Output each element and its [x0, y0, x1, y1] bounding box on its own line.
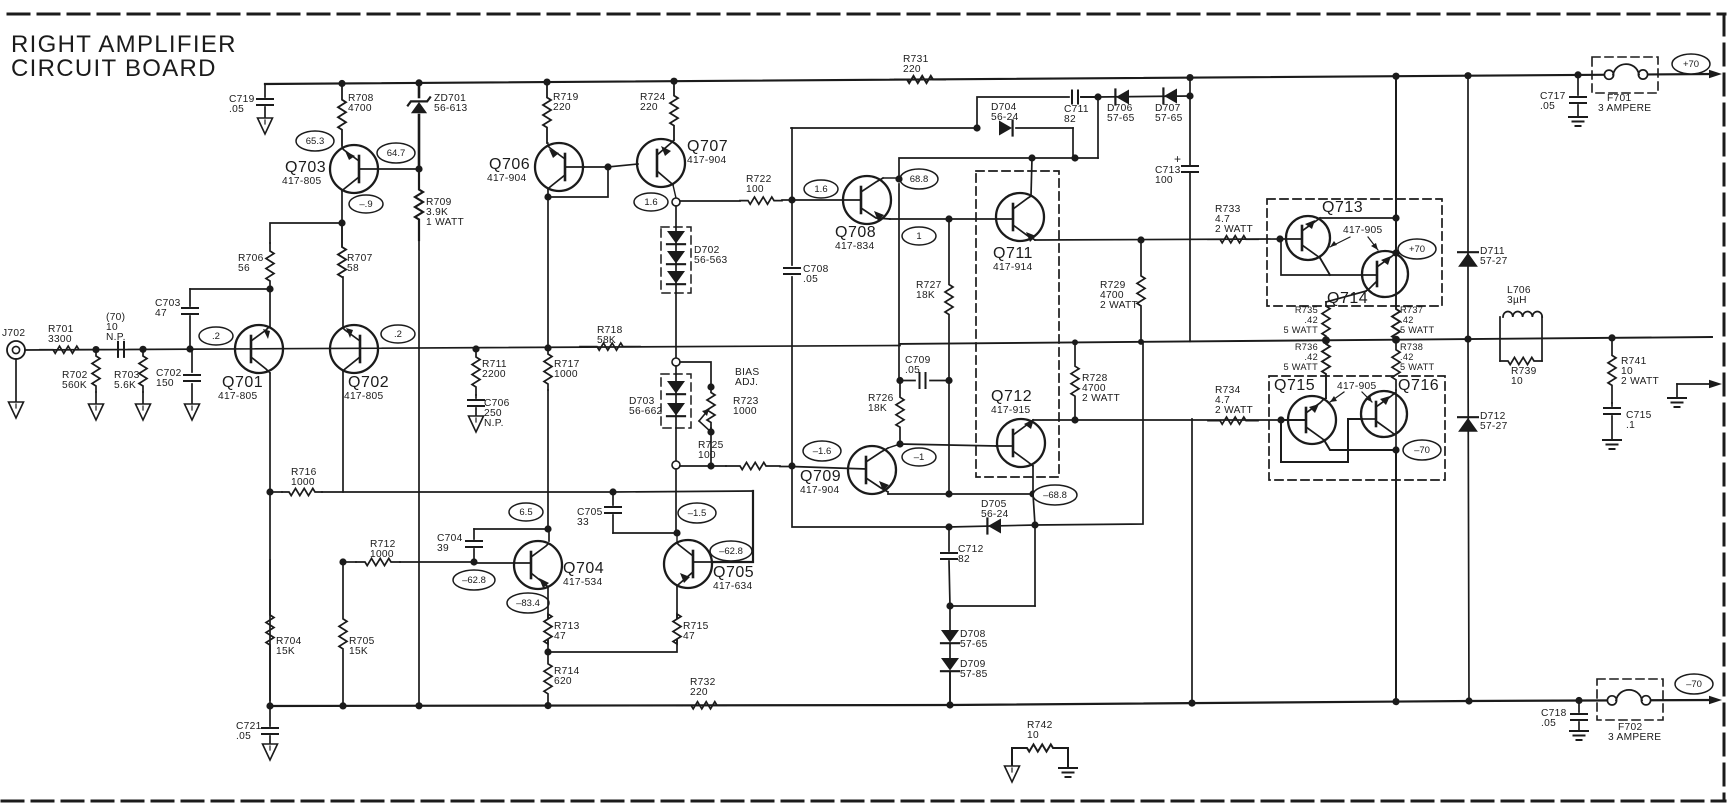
svg-text:57-65: 57-65 — [1107, 113, 1135, 124]
node 6.5 — [509, 503, 543, 521]
junction — [1094, 93, 1101, 100]
wire D705 line to output column — [1035, 342, 1143, 525]
svg-text:2 WATT: 2 WATT — [1215, 224, 1253, 235]
junction — [945, 215, 952, 222]
wire Q713 emitter to Q714 — [1281, 239, 1362, 275]
svg-text:R737: R737 — [1400, 305, 1423, 315]
transistor Q707 — [637, 138, 728, 187]
wire — [1191, 419, 1193, 703]
junction — [707, 462, 714, 469]
junction — [544, 648, 551, 655]
svg-text:–68.8: –68.8 — [1043, 490, 1067, 501]
transistor Q701 — [218, 325, 283, 402]
junction — [1277, 416, 1284, 423]
wire — [680, 362, 711, 387]
resistor R706 — [238, 243, 274, 289]
junction — [544, 193, 551, 200]
fuse F701 — [1592, 57, 1658, 114]
ground — [9, 402, 24, 418]
wire — [792, 467, 949, 528]
svg-text:Q705: Q705 — [713, 564, 754, 581]
svg-text:.2: .2 — [394, 329, 402, 340]
node -1.6 — [803, 441, 841, 461]
resistor R739 — [1500, 357, 1542, 387]
svg-text:417-805: 417-805 — [282, 176, 322, 187]
wire — [613, 491, 753, 492]
svg-text:4700: 4700 — [348, 103, 372, 114]
wire -70 collector column — [1395, 390, 1397, 702]
junction — [1575, 697, 1582, 704]
junction — [139, 346, 146, 353]
transistor Q708 — [792, 176, 891, 252]
capacitor C706 — [468, 395, 510, 429]
junction — [707, 428, 714, 435]
svg-text:65.3: 65.3 — [306, 136, 325, 147]
resistor R709 — [415, 169, 464, 348]
resistor R735 — [1284, 302, 1330, 340]
svg-text:–1.5: –1.5 — [688, 508, 707, 519]
svg-text:R738: R738 — [1400, 342, 1423, 352]
resistor R736 — [1284, 340, 1330, 398]
resistor R702 — [62, 350, 100, 404]
node -1 — [902, 448, 936, 466]
wire Q714 emitter — [1326, 291, 1366, 302]
wire — [948, 381, 950, 495]
diode D706 — [1107, 90, 1135, 125]
capacitor C713 — [1155, 96, 1198, 341]
resistor R718 — [580, 325, 640, 350]
resistor R737 — [1392, 253, 1435, 340]
wire line C — [1032, 97, 1098, 158]
chassis ground — [1570, 731, 1588, 740]
svg-text:10: 10 — [1027, 730, 1039, 741]
inductor L706 — [1500, 285, 1542, 361]
svg-text:417-905: 417-905 — [1343, 225, 1383, 236]
wire — [378, 168, 419, 170]
wire — [418, 348, 420, 706]
svg-text:CIRCUIT BOARD: CIRCUIT BOARD — [11, 55, 217, 82]
transistor Q702 — [330, 325, 389, 402]
wire — [268, 289, 270, 327]
resistor R716 — [270, 467, 613, 496]
svg-text:.1: .1 — [1626, 420, 1635, 431]
junction — [1071, 416, 1078, 423]
svg-text:417-534: 417-534 — [563, 577, 603, 588]
resistor R717 — [544, 348, 580, 390]
svg-text:417-904: 417-904 — [800, 485, 840, 496]
svg-text:Q715: Q715 — [1274, 377, 1315, 394]
junction — [945, 490, 952, 497]
block Q711/Q712 — [976, 171, 1059, 477]
svg-text:Q703: Q703 — [285, 159, 326, 176]
svg-text:Q711: Q711 — [993, 245, 1033, 262]
svg-text:–62.8: –62.8 — [719, 546, 743, 557]
svg-text:56-613: 56-613 — [434, 103, 468, 114]
transistor Q706 — [487, 143, 584, 191]
svg-text:100: 100 — [698, 450, 716, 461]
title — [11, 31, 237, 82]
junction — [339, 558, 346, 565]
transistor Q705 — [664, 540, 754, 592]
svg-text:417-914: 417-914 — [993, 262, 1033, 273]
svg-text:R736: R736 — [1295, 342, 1318, 352]
junction — [1464, 336, 1471, 343]
resistor R713 — [544, 614, 580, 644]
junction — [266, 285, 273, 292]
wire — [673, 140, 674, 141]
svg-text:220: 220 — [903, 64, 921, 75]
svg-text:5 WATT: 5 WATT — [1400, 325, 1435, 335]
node -62.8 — [710, 541, 752, 561]
svg-text:18K: 18K — [916, 290, 935, 301]
wire speaker return — [1677, 380, 1722, 398]
wire — [888, 444, 900, 448]
svg-text:Q706: Q706 — [489, 156, 530, 173]
wire — [676, 586, 678, 618]
junction — [1072, 339, 1078, 345]
svg-text:58K: 58K — [597, 335, 616, 346]
ground — [1005, 766, 1020, 782]
capacitor C715 — [1604, 403, 1652, 440]
capacitor C712 — [941, 527, 984, 606]
svg-text:220: 220 — [640, 102, 658, 113]
junction — [415, 165, 422, 172]
svg-text:R735: R735 — [1295, 305, 1318, 315]
junction — [788, 462, 795, 469]
junction — [973, 124, 980, 131]
wire — [547, 390, 549, 529]
wire — [950, 525, 1035, 606]
resistor R705 — [339, 562, 375, 706]
resistor R732 — [677, 677, 726, 709]
transistor Q716 — [1361, 377, 1439, 437]
junction — [338, 219, 345, 226]
wire — [675, 469, 677, 534]
junction — [1028, 154, 1035, 161]
svg-text:.42: .42 — [1400, 315, 1414, 325]
jack J702 — [2, 328, 25, 359]
wire — [342, 277, 344, 328]
junction — [1608, 334, 1615, 341]
svg-text:2 WATT: 2 WATT — [1215, 405, 1253, 416]
svg-text:.05: .05 — [803, 274, 818, 285]
junction — [895, 175, 902, 182]
svg-text:56-24: 56-24 — [991, 112, 1019, 123]
svg-text:1000: 1000 — [291, 477, 315, 488]
wire — [548, 529, 550, 541]
svg-text:Q713: Q713 — [1322, 199, 1363, 216]
resistor R712 — [343, 539, 474, 566]
svg-text:220: 220 — [690, 687, 708, 698]
junction — [896, 377, 903, 384]
resistor R711 — [472, 349, 507, 395]
junction — [1276, 235, 1283, 242]
node -68.8 — [1033, 485, 1077, 505]
svg-text:.42: .42 — [1400, 352, 1414, 362]
svg-text:56-662: 56-662 — [629, 406, 663, 417]
junction — [1464, 72, 1471, 79]
svg-text:+: + — [1174, 152, 1181, 166]
svg-text:6.5: 6.5 — [519, 507, 532, 518]
svg-text:.42: .42 — [1304, 352, 1318, 362]
capacitor C703 — [155, 289, 198, 349]
svg-text:57-27: 57-27 — [1480, 421, 1508, 432]
svg-text:417-915: 417-915 — [991, 405, 1031, 416]
junction — [338, 80, 345, 87]
svg-text:Q702: Q702 — [348, 374, 389, 391]
wire output rail — [900, 337, 1712, 344]
svg-text:56-24: 56-24 — [981, 509, 1009, 520]
svg-text:+70: +70 — [1409, 244, 1425, 255]
svg-text:–.9: –.9 — [359, 199, 372, 210]
svg-text:Q707: Q707 — [687, 138, 728, 155]
wire — [547, 189, 549, 348]
junction — [1574, 71, 1581, 78]
svg-text:82: 82 — [1064, 114, 1076, 125]
wire Q709 emitter line — [888, 492, 1033, 494]
junction — [1392, 446, 1399, 453]
node .2 — [381, 325, 415, 343]
transistor Q704 — [474, 541, 604, 589]
svg-text:–1: –1 — [914, 452, 925, 463]
svg-text:.05: .05 — [236, 731, 251, 742]
resistor R715 — [673, 614, 709, 644]
wire — [608, 164, 638, 167]
resistor R722 — [680, 174, 792, 204]
resistor R731 — [895, 54, 945, 83]
wire Q708 emitter to Q711 base — [890, 218, 996, 220]
wire — [584, 166, 608, 168]
chassis ground — [1603, 440, 1621, 449]
svg-text:1: 1 — [916, 231, 921, 242]
wire Q709/Q712 base line — [900, 444, 996, 446]
svg-text:–83.4: –83.4 — [516, 598, 540, 609]
junction — [266, 702, 273, 709]
junction — [946, 701, 953, 708]
junction — [266, 488, 273, 495]
transistor Q703 — [282, 145, 378, 193]
svg-text:560K: 560K — [62, 380, 87, 391]
ground — [89, 404, 104, 420]
wire line B — [791, 127, 977, 129]
svg-text:47: 47 — [155, 308, 167, 319]
svg-text:J702: J702 — [2, 328, 25, 339]
wire Q711 emitter line — [1035, 239, 1280, 240]
capacitor C705 — [577, 492, 621, 533]
resistor R704 — [266, 560, 302, 700]
capacitor C701 — [106, 312, 126, 357]
wire — [977, 97, 1069, 128]
junction — [1137, 236, 1144, 243]
svg-text:3µH: 3µH — [1507, 295, 1527, 306]
svg-text:Q712: Q712 — [991, 388, 1032, 405]
junction — [946, 602, 953, 609]
node 1 — [902, 227, 936, 245]
svg-text:417-834: 417-834 — [835, 241, 875, 252]
junction — [673, 529, 680, 536]
wire — [548, 640, 677, 652]
junction — [472, 345, 479, 352]
wire — [673, 185, 676, 198]
junction — [788, 196, 795, 203]
junction — [945, 523, 952, 530]
node +70 — [1398, 239, 1436, 259]
svg-text:.05: .05 — [1541, 718, 1556, 729]
svg-text:RIGHT AMPLIFIER: RIGHT AMPLIFIER — [11, 31, 237, 58]
transistor Q714 — [1327, 251, 1408, 307]
wire — [1467, 76, 1469, 339]
wire Q715 collector — [1324, 440, 1393, 450]
junction — [1465, 697, 1472, 704]
resistor R714 — [544, 652, 580, 706]
svg-text:1.6: 1.6 — [814, 184, 827, 195]
resistor R726 — [868, 381, 904, 445]
svg-text:39: 39 — [437, 543, 449, 554]
svg-text:57-65: 57-65 — [960, 639, 988, 650]
wire — [1031, 158, 1032, 196]
svg-text:47: 47 — [554, 631, 566, 642]
wire — [710, 428, 712, 466]
svg-text:68.8: 68.8 — [910, 174, 929, 185]
wire — [268, 371, 270, 492]
resistor R707 — [338, 223, 373, 277]
junction — [470, 558, 477, 565]
diode D705 — [949, 499, 1035, 534]
junction — [670, 78, 677, 85]
resistor R719 — [543, 82, 579, 143]
wire — [712, 491, 753, 562]
diode D708 — [941, 629, 988, 658]
svg-text:3 AMPERE: 3 AMPERE — [1608, 732, 1661, 743]
svg-text:220: 220 — [553, 102, 571, 113]
junction — [339, 702, 346, 709]
wire Q715 to Q716 base — [1281, 419, 1362, 462]
node 68.8 — [900, 169, 938, 189]
svg-text:.05: .05 — [229, 104, 244, 115]
diode D704 — [991, 102, 1073, 158]
ground — [185, 404, 200, 420]
junction — [415, 79, 422, 86]
wire — [675, 206, 677, 227]
svg-text:.42: .42 — [1304, 315, 1318, 325]
node -.9 — [349, 195, 383, 213]
transistor Q709 — [792, 446, 896, 496]
svg-text:56: 56 — [238, 263, 250, 274]
svg-text:1000: 1000 — [370, 549, 394, 560]
wire — [1032, 466, 1034, 494]
node — [672, 461, 680, 469]
junction — [186, 345, 193, 352]
wire — [1468, 339, 1469, 701]
junction — [1186, 92, 1193, 99]
svg-text:3300: 3300 — [48, 334, 72, 345]
svg-text:N.P.: N.P. — [106, 332, 126, 343]
block Q715/Q716 — [1269, 376, 1445, 480]
capacitor C711 — [1064, 91, 1098, 126]
wire line A — [1098, 96, 1190, 97]
label 417-905 — [1330, 225, 1383, 250]
svg-text:Q701: Q701 — [222, 374, 263, 391]
svg-text:N.P.: N.P. — [484, 418, 504, 429]
svg-text:56-563: 56-563 — [694, 255, 728, 266]
svg-text:33: 33 — [577, 517, 589, 528]
junction — [1031, 521, 1038, 528]
junction — [1071, 154, 1078, 161]
svg-text:15K: 15K — [349, 646, 368, 657]
svg-text:+70: +70 — [1683, 59, 1699, 70]
wire — [898, 184, 900, 381]
wire — [15, 359, 17, 402]
svg-text:10: 10 — [1511, 376, 1523, 387]
svg-text:Q708: Q708 — [835, 224, 876, 241]
svg-text:3 AMPERE: 3 AMPERE — [1598, 103, 1651, 114]
svg-text:57-85: 57-85 — [960, 669, 988, 680]
wire — [1189, 78, 1191, 96]
capacitor C721 — [236, 706, 278, 744]
svg-text:2200: 2200 — [482, 369, 506, 380]
wire — [547, 640, 549, 652]
svg-text:ADJ.: ADJ. — [735, 377, 758, 388]
wire — [1324, 398, 1326, 399]
svg-text:Q709: Q709 — [800, 468, 841, 485]
svg-text:18K: 18K — [868, 403, 887, 414]
svg-text:–62.8: –62.8 — [462, 575, 486, 586]
capacitor C717 — [1540, 75, 1586, 117]
wire — [1033, 494, 1035, 525]
svg-text:1000: 1000 — [733, 406, 757, 417]
svg-text:2 WATT: 2 WATT — [1100, 300, 1138, 311]
junction — [92, 346, 99, 353]
resistor R742 — [1012, 720, 1068, 768]
node -70 — [1403, 440, 1441, 460]
junction — [415, 702, 422, 709]
junction — [544, 702, 551, 709]
svg-text:417-905: 417-905 — [1337, 381, 1377, 392]
junction — [1138, 339, 1144, 345]
wire — [342, 371, 344, 492]
resistor R723 bias adjust — [699, 367, 759, 432]
svg-text:Q716: Q716 — [1398, 377, 1439, 394]
junction — [945, 377, 952, 384]
node +70 terminal — [1672, 54, 1710, 74]
junction — [609, 488, 616, 495]
svg-text:57-65: 57-65 — [1155, 113, 1183, 124]
chassis ground — [1059, 768, 1077, 777]
wire — [791, 128, 793, 200]
svg-text:100: 100 — [746, 184, 764, 195]
junction — [1392, 336, 1400, 344]
transistor Q711 — [993, 193, 1044, 273]
block Q713/Q714 — [1267, 199, 1442, 306]
svg-text:.2: .2 — [212, 331, 220, 342]
junction — [1029, 490, 1036, 497]
junction — [896, 440, 903, 447]
fuse F702 — [1597, 679, 1663, 743]
junction — [544, 525, 551, 532]
diode D709 — [941, 658, 988, 705]
wire — [547, 143, 549, 146]
svg-text:47: 47 — [683, 631, 695, 642]
svg-text:417-634: 417-634 — [713, 581, 753, 592]
resistor R724 — [640, 81, 678, 140]
svg-text:1000: 1000 — [554, 369, 578, 380]
wire Q712 collector line — [1033, 419, 1306, 421]
chassis ground — [1668, 398, 1686, 407]
resistor R708 — [338, 84, 374, 147]
node -83.4 — [507, 593, 549, 613]
junction — [1186, 74, 1193, 81]
wire — [548, 167, 608, 197]
